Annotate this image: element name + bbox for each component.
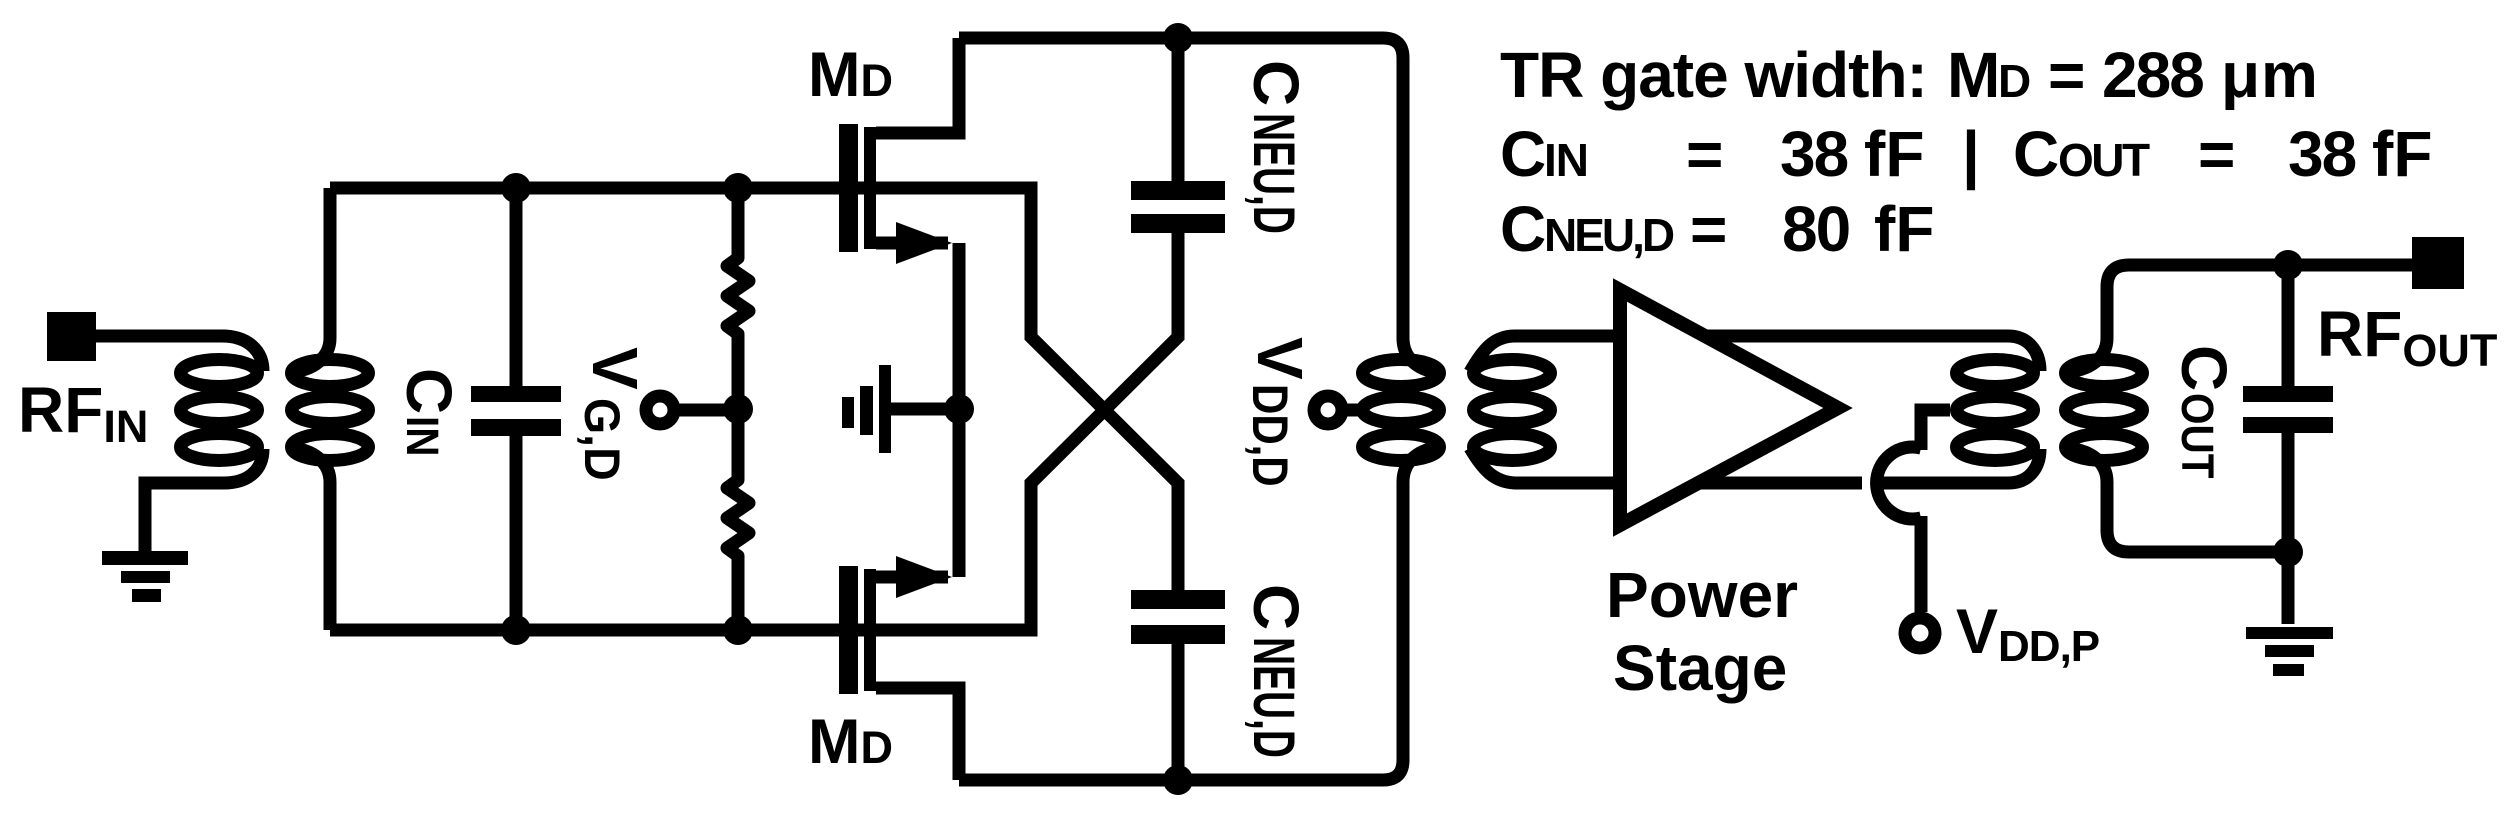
svg-text:38: 38 xyxy=(2288,118,2356,190)
node dot bottom rail xyxy=(1163,765,1193,795)
node dot COUT bottom xyxy=(2273,537,2303,567)
label CNEU,D upper (rotated) xyxy=(1240,60,1312,234)
svg-text:m: m xyxy=(2261,39,2318,111)
svg-text:288: 288 xyxy=(2102,39,2203,111)
svg-text:IN: IN xyxy=(1544,134,1588,186)
svg-text:TR gate width:: TR gate width: xyxy=(1500,39,1927,111)
svg-text:Power: Power xyxy=(1606,559,1798,631)
wire bottom gate rail xyxy=(330,483,1031,630)
ground (output side) xyxy=(2246,627,2333,676)
label COUT (rotated) xyxy=(2168,345,2240,478)
svg-text:Stage: Stage xyxy=(1613,632,1787,704)
svg-text:μ: μ xyxy=(2221,39,2260,111)
node dot CIN bottom xyxy=(501,615,531,645)
capacitor CIN xyxy=(471,188,561,630)
label VG,D (rotated) xyxy=(574,347,651,481)
terminal VDD,D (center tap circle) xyxy=(1314,396,1342,424)
svg-text:NEU,D: NEU,D xyxy=(1241,113,1306,234)
wire center tap step xyxy=(1921,410,1950,450)
svg-text:C: C xyxy=(1500,118,1546,190)
wire RFIN lead xyxy=(96,330,226,343)
svg-text:VDD,P: VDD,P xyxy=(1956,597,2099,671)
svg-text:fF: fF xyxy=(2372,118,2432,190)
svg-text:RFOUT: RFOUT xyxy=(2317,298,2497,376)
wire top gate rail xyxy=(330,188,1031,337)
label CNEU,D lower (rotated) xyxy=(1240,584,1312,758)
svg-text:G,D: G,D xyxy=(574,398,630,481)
svg-text:MD: MD xyxy=(808,707,893,777)
svg-text:|: | xyxy=(1962,118,1980,191)
svg-text:C: C xyxy=(1240,584,1312,630)
node dot common source xyxy=(944,394,974,424)
label CIN (rotated) xyxy=(393,368,465,457)
svg-text:IN: IN xyxy=(396,416,446,457)
label VDD,D (rotated) xyxy=(1242,337,1316,487)
transistor Q2 MD (lower) xyxy=(839,409,959,780)
wire differential top line to power stage xyxy=(1470,336,2040,372)
svg-text:OUT: OUT xyxy=(2171,393,2221,478)
inductor L1 primary of input transformer T1 xyxy=(145,336,263,551)
inductor L3 primary of interstage transformer T2 xyxy=(1363,360,1440,461)
svg-text:OUT: OUT xyxy=(2058,134,2150,186)
node dot top rail xyxy=(1163,23,1193,53)
svg-text:38: 38 xyxy=(1780,118,1848,190)
wire cross-coupling X (gate to opposite neutralization cap) xyxy=(1031,329,1178,491)
svg-text:C: C xyxy=(2168,345,2240,391)
wire differential bottom line left segment xyxy=(1470,448,1862,483)
svg-text:V: V xyxy=(579,347,651,390)
wire to VDD,P xyxy=(1915,516,1928,612)
wire VDD,D lead xyxy=(1344,404,1363,417)
node dot VG,D xyxy=(723,394,753,424)
wire hop over bottom line xyxy=(1877,447,1921,519)
svg-text:fF: fF xyxy=(1874,193,1934,265)
svg-text:RFIN: RFIN xyxy=(18,374,148,452)
svg-text:fF: fF xyxy=(1864,118,1924,190)
node dot CIN top xyxy=(501,173,531,203)
svg-text:=: = xyxy=(2048,39,2085,111)
resistor R2 (lower gate bias) xyxy=(727,409,749,630)
svg-text:C: C xyxy=(1240,60,1312,106)
capacitor CNEU,D (upper) xyxy=(1131,38,1225,337)
svg-text:M: M xyxy=(1947,39,2000,111)
svg-text:C: C xyxy=(2013,118,2059,190)
capacitor CNEU,D (lower) xyxy=(1131,483,1225,780)
svg-text:MD: MD xyxy=(808,40,893,110)
wire VG,D lead xyxy=(673,404,738,417)
svg-text:NEU,D: NEU,D xyxy=(1241,637,1306,758)
resistor R1 (upper gate bias) xyxy=(727,188,749,409)
inductor L2 secondary of input transformer T1 xyxy=(289,188,369,630)
svg-text:=: = xyxy=(2198,118,2235,190)
node dot R bottom xyxy=(723,615,753,645)
svg-text:D: D xyxy=(1998,55,2031,107)
inductor L4 secondary of interstage transformer T2 xyxy=(1474,360,1551,461)
ac ground (common source virtual ground) xyxy=(842,365,959,453)
transistor Q1 MD (upper) xyxy=(839,38,959,409)
node dot R top xyxy=(723,173,753,203)
svg-text:DD,D: DD,D xyxy=(1242,384,1298,487)
ground (input side) xyxy=(102,551,188,602)
terminal RFOUT (black square pad) xyxy=(2412,237,2464,289)
op-amp power stage triangle xyxy=(1620,290,1838,525)
capacitor COUT xyxy=(2243,265,2333,552)
wire to output ground xyxy=(2282,552,2295,624)
svg-text:=: = xyxy=(1690,193,1727,265)
svg-text:C: C xyxy=(393,368,465,414)
svg-text:80: 80 xyxy=(1782,193,1849,265)
svg-text:V: V xyxy=(1244,337,1316,380)
inductor L6 secondary of output transformer T3 xyxy=(2064,265,2412,552)
inductor L5 primary of output transformer T3 xyxy=(1957,360,2034,461)
terminal RFIN (black square pad) xyxy=(47,312,96,361)
terminal VG,D (bias circle) xyxy=(646,396,674,424)
svg-text:NEU,D: NEU,D xyxy=(1544,209,1674,261)
terminal VDD,P (bias circle) xyxy=(1905,618,1935,648)
node dot COUT top xyxy=(2273,250,2303,280)
svg-text:C: C xyxy=(1500,193,1546,265)
svg-text:=: = xyxy=(1686,118,1723,190)
wire bottom rail to right tank xyxy=(959,447,1444,780)
wire differential bottom line right segment xyxy=(1878,449,2040,483)
wire top rail to right tank xyxy=(959,38,1444,373)
